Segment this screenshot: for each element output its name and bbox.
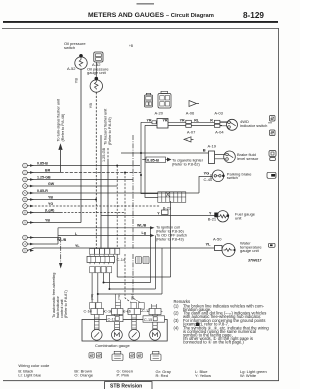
svg-text:C-15: C-15 <box>144 318 152 322</box>
svg-text:B-21: B-21 <box>208 217 217 222</box>
svg-text:A-52: A-52 <box>67 66 76 71</box>
svg-text:YG: YG <box>48 202 53 206</box>
svg-text:C-17: C-17 <box>142 309 150 313</box>
svg-text:W: White: W: White <box>240 373 257 378</box>
svg-text:(YR): (YR) <box>117 294 121 300</box>
svg-text:YL: YL <box>206 241 212 246</box>
svg-text:(2): (2) <box>174 311 180 316</box>
svg-text:YR: YR <box>163 118 168 122</box>
svg-text:C-40: C-40 <box>204 177 213 182</box>
svg-text:A-04: A-04 <box>215 130 224 135</box>
svg-text:Y: Yellow: Y: Yellow <box>195 373 211 378</box>
svg-text:A-19: A-19 <box>208 143 217 148</box>
svg-text:YB: YB <box>74 78 79 84</box>
svg-text:gauge unit: gauge unit <box>240 248 260 253</box>
svg-text:Ll: Light blue: Ll: Light blue <box>18 373 41 378</box>
svg-text:0.85-B: 0.85-B <box>37 161 48 165</box>
svg-text:WL/B: WL/B <box>57 238 67 242</box>
svg-text:A-06: A-06 <box>186 111 195 116</box>
svg-text:C-12: C-12 <box>108 317 116 321</box>
svg-text:Combination gauge: Combination gauge <box>95 343 130 348</box>
svg-text:(1): (1) <box>174 303 180 308</box>
svg-text:gauge unit: gauge unit <box>87 70 107 75</box>
svg-text:(LgR): (LgR) <box>45 208 55 212</box>
svg-text:(3): (3) <box>174 318 180 323</box>
svg-text:STB Revision: STB Revision <box>110 384 142 389</box>
svg-text:YG: YG <box>204 171 210 176</box>
svg-text:(Refer to P.8-48): (Refer to P.8-48) <box>61 113 65 142</box>
svg-text:switch: switch <box>64 45 75 50</box>
svg-text:O: Orange: O: Orange <box>74 373 93 378</box>
svg-text:YB: YB <box>88 103 93 109</box>
svg-text:YB: YB <box>45 218 50 222</box>
svg-text:level sensor: level sensor <box>237 156 259 161</box>
svg-text:(YB): (YB) <box>90 294 94 300</box>
svg-text:(RL): (RL) <box>130 294 134 300</box>
svg-text:C-14: C-14 <box>117 257 126 262</box>
svg-text:C-16: C-16 <box>123 310 131 314</box>
svg-text:8-129: 8-129 <box>243 11 264 20</box>
svg-text:indicator switch: indicator switch <box>240 123 267 128</box>
svg-text:(4): (4) <box>174 326 180 331</box>
svg-text:+B: +B <box>129 44 133 48</box>
svg-text:Lg: Lg <box>142 231 146 235</box>
svg-text:YB: YB <box>48 195 53 199</box>
svg-text:P: Pink: P: Pink <box>117 373 130 378</box>
svg-text:BR: BR <box>45 168 51 172</box>
svg-text:GW: GW <box>48 182 55 186</box>
svg-text:To turn-signal flasher unit: To turn-signal flasher unit <box>57 98 61 141</box>
svg-text:0.85-R: 0.85-R <box>37 189 48 193</box>
svg-text:YR: YR <box>147 118 152 122</box>
svg-text:A-50: A-50 <box>213 237 222 242</box>
svg-text:C-10: C-10 <box>84 310 92 314</box>
svg-text:R: Red: R: Red <box>156 373 168 378</box>
svg-text:METERS AND GAUGES – Circuit Di: METERS AND GAUGES – Circuit Diagram <box>88 12 214 19</box>
svg-text:To hazard flasher unit: To hazard flasher unit <box>104 108 108 145</box>
svg-text:C-11: C-11 <box>104 310 112 314</box>
svg-text:R: R <box>210 118 213 122</box>
svg-text:1.25-GB: 1.25-GB <box>37 175 51 179</box>
svg-text:0.85-B: 0.85-B <box>147 158 159 163</box>
svg-text:(Refer to P.8-87): (Refer to P.8-87) <box>64 289 68 318</box>
svg-text:37W617: 37W617 <box>248 259 262 263</box>
svg-text:A-07: A-07 <box>187 130 196 135</box>
svg-text:A-20: A-20 <box>155 111 164 116</box>
svg-text:WL/B: WL/B <box>137 224 147 228</box>
svg-text:unit: unit <box>235 215 242 220</box>
svg-text:YR: YR <box>180 118 185 122</box>
svg-text:switch: switch <box>227 175 238 180</box>
svg-text:B: B <box>203 148 206 153</box>
svg-text:Wiring color code: Wiring color code <box>18 363 50 368</box>
svg-text:A-03: A-03 <box>214 111 223 116</box>
svg-text:RL: RL <box>194 118 200 122</box>
svg-text:(Refer to P.8-49): (Refer to P.8-49) <box>108 116 112 145</box>
svg-text:(Refer to P.8-62): (Refer to P.8-62) <box>172 162 201 166</box>
svg-text:connected to ① on the left pag: connected to ① on the left page.) <box>183 340 244 345</box>
svg-text:YL: YL <box>75 244 80 248</box>
svg-text:1.25-GB: 1.25-GB <box>102 147 106 162</box>
